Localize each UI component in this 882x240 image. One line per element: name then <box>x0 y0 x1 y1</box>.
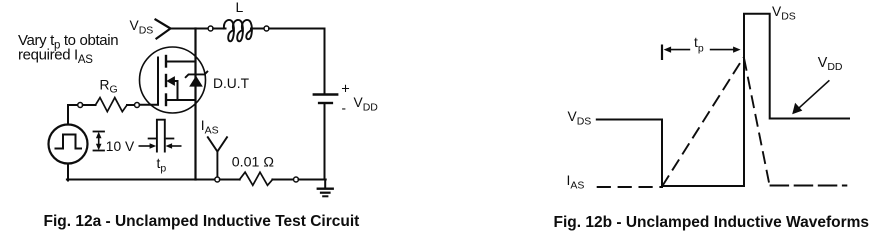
wire drain-source main vertical (through D.U.T.) <box>194 29 196 180</box>
MOSFET drain lead <box>166 61 196 63</box>
10 V amplitude double arrow shaft and heads <box>98 135 100 147</box>
body diode (avalanche) triangle <box>189 76 203 87</box>
MOSFET D.U.T envelope circle <box>140 47 206 113</box>
resistor RG zigzag <box>96 98 128 112</box>
IAS dashed baseline left <box>597 186 663 188</box>
svg-text:RG: RG <box>100 77 118 95</box>
svg-text:tp: tp <box>157 156 167 174</box>
wire node to 0.01 ohm resistor <box>220 179 240 181</box>
MOSFET channel segment top <box>165 56 167 67</box>
VDS probe arrow <box>156 20 171 39</box>
svg-text:required IAS: required IAS <box>18 46 93 66</box>
svg-text:L: L <box>236 0 244 15</box>
svg-text:-: - <box>342 101 347 116</box>
svg-text:D.U.T: D.U.T <box>213 76 250 91</box>
wire inductor to node <box>251 28 264 30</box>
wire gate lead <box>140 104 159 106</box>
svg-text:VDS: VDS <box>130 18 154 36</box>
wire pulse generator bottom to rail <box>67 164 69 181</box>
node terminal circle left of RG <box>78 103 83 108</box>
svg-text:tp: tp <box>694 35 704 54</box>
MOSFET channel segment bottom <box>165 95 167 106</box>
node terminal circle right of 0.01 ohm <box>294 177 299 182</box>
node terminal circle right of L <box>264 26 269 31</box>
wire node to ground junction <box>299 179 326 181</box>
MOSFET channel segment middle <box>165 75 167 86</box>
inductor L coil <box>224 20 234 41</box>
svg-text:IAS: IAS <box>201 118 219 136</box>
wire pulse generator top to RG level <box>68 105 78 124</box>
pulse generator circle <box>49 125 88 164</box>
resistor 0.01 ohm zigzag <box>240 172 273 185</box>
svg-text:IAS: IAS <box>567 173 585 191</box>
VDD pointer arrow <box>798 80 830 109</box>
IAS dashed baseline right <box>770 185 848 187</box>
battery VDD positive plate <box>314 93 337 95</box>
tp pulse symbol shoulders <box>149 138 156 140</box>
10 V amplitude arrow top bar <box>94 131 105 133</box>
IAS dashed falling edge <box>744 58 770 186</box>
svg-text:VDS: VDS <box>568 109 592 127</box>
tp dimension arrow right (points right) <box>710 49 734 51</box>
svg-text:VDD: VDD <box>818 55 843 73</box>
wire to inductor <box>213 28 225 30</box>
MOSFET gate bar <box>157 58 159 105</box>
IAS current arrow into node <box>208 137 227 151</box>
wire L to top-right corner <box>269 29 325 94</box>
tp width arrow right (points left) <box>171 145 181 147</box>
IAS dashed rising ramp <box>662 58 744 187</box>
wire bottom rail <box>67 179 215 181</box>
wire top: VDS arrow to inductor <box>171 28 209 30</box>
tp dimension tick <box>661 45 663 61</box>
VDS waveform solid trace <box>596 14 850 186</box>
node terminal circle left of L <box>208 26 213 31</box>
MOSFET substrate arrow (body connection) <box>174 80 178 82</box>
tp pulse symbol pulse outline <box>157 120 165 152</box>
ground symbol <box>324 180 326 189</box>
node terminal circle IAS measuring point <box>215 177 220 182</box>
wire battery to bottom rail <box>324 104 326 179</box>
10 V amplitude arrow bottom bar <box>94 150 105 152</box>
node terminal circle right of RG <box>135 103 140 108</box>
svg-text:VDS: VDS <box>772 4 796 22</box>
svg-text:0.01 Ω: 0.01 Ω <box>232 154 274 170</box>
svg-text:VDD: VDD <box>354 95 379 113</box>
pulse generator waveform symbol <box>56 135 82 149</box>
battery VDD negative plate <box>319 102 332 104</box>
wire RG to node <box>127 104 135 106</box>
tp dimension arrow left (points left) <box>669 49 691 51</box>
svg-text:+: + <box>341 81 350 97</box>
MOSFET source lead <box>166 99 196 101</box>
wire node to RG <box>83 104 96 106</box>
tp width arrow left (points right) <box>139 145 150 147</box>
svg-text:Fig. 12a - Unclamped Inductive: Fig. 12a - Unclamped Inductive Test Circ… <box>44 213 360 230</box>
svg-text:Fig. 12b - Unclamped Inductive: Fig. 12b - Unclamped Inductive Waveforms <box>554 214 870 231</box>
body diode cathode bar with avalanche ticks <box>186 72 208 78</box>
wire resistor to node <box>272 179 293 181</box>
svg-text:10 V: 10 V <box>106 139 135 154</box>
